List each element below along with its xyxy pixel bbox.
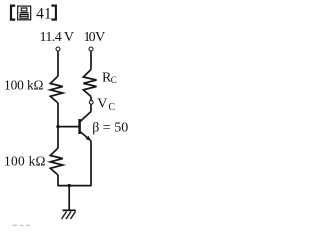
svg-text:V: V [97, 96, 107, 111]
wire 10V terminal to RC [90, 51, 92, 70]
node VC terminal [89, 100, 93, 104]
wire R1 to R2 [57, 103, 59, 148]
svg-text:C: C [108, 102, 115, 113]
ground bar [63, 209, 76, 211]
title bracket right 】 [51, 6, 56, 20]
resistor RC [83, 70, 96, 97]
terminal node 10V [89, 47, 93, 51]
svg-text:100 kΩ: 100 kΩ [4, 153, 46, 168]
wire RC to VC node [90, 97, 92, 101]
svg-text:β = 50: β = 50 [92, 120, 128, 135]
transistor Q1 base bar [78, 119, 81, 134]
wire R2 to bottom rail [57, 175, 59, 186]
ground hatch stroke 1 [62, 212, 67, 220]
svg-text:C: C [111, 75, 117, 85]
wire bottom rail [57, 185, 91, 187]
svg-text:11.4 V: 11.4 V [40, 30, 75, 45]
resistor R1 100k (upper left) [50, 76, 63, 103]
svg-text:41: 41 [36, 5, 52, 22]
svg-text:100 kΩ: 100 kΩ [4, 78, 44, 93]
transistor Q1 emitter lead [80, 131, 91, 141]
wire 11.4V terminal to R1 [57, 51, 59, 76]
ground hatch stroke 3 [71, 212, 76, 220]
faint cropped text at bottom edge [13, 225, 31, 226]
wire ground stem [68, 186, 70, 210]
title bracket left 【 [11, 6, 15, 20]
wire VC node to collector [90, 105, 92, 112]
wire emitter to bottom rail [90, 141, 92, 186]
wire base junction to transistor base [58, 126, 79, 128]
transistor Q1 emitter arrowhead [86, 136, 91, 141]
title character 圖 [18, 6, 31, 20]
resistor R2 100k (lower left) [50, 148, 63, 175]
terminal node 11.4V [56, 47, 60, 51]
svg-text:10 V: 10 V [84, 30, 106, 45]
node base junction dot [56, 125, 59, 128]
transistor Q1 collector lead [80, 112, 91, 122]
node ground junction dot [68, 184, 71, 187]
ground hatch stroke 2 [66, 212, 71, 220]
